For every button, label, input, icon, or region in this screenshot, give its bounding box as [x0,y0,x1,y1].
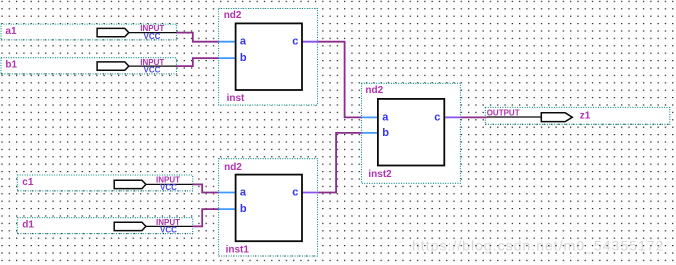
svg-text:a1: a1 [5,26,17,37]
svg-text:OUTPUT: OUTPUT [487,108,520,117]
svg-text:c: c [292,187,298,199]
svg-text:inst: inst [227,93,245,104]
svg-text:b1: b1 [5,60,17,71]
svg-text:nd2: nd2 [224,162,242,173]
svg-text:INPUT: INPUT [156,218,180,227]
svg-text:c1: c1 [22,177,34,188]
svg-text:inst1: inst1 [226,245,250,256]
svg-text:c: c [434,111,440,123]
svg-text:a: a [240,187,247,199]
svg-text:a: a [240,36,247,48]
svg-text:d1: d1 [22,219,34,230]
svg-text:b: b [240,52,247,64]
svg-text:INPUT: INPUT [156,175,180,184]
svg-text:VCC: VCC [160,183,177,192]
svg-text:inst2: inst2 [368,169,392,180]
svg-text:VCC: VCC [144,32,161,41]
svg-text:c: c [292,36,298,48]
svg-text:INPUT: INPUT [140,58,164,67]
svg-text:nd2: nd2 [365,85,383,96]
svg-text:b: b [240,203,247,215]
svg-text:z1: z1 [580,110,591,121]
svg-text:b: b [382,127,389,139]
svg-text:a: a [382,111,389,123]
svg-text:INPUT: INPUT [140,24,164,33]
svg-text:nd2: nd2 [224,10,242,21]
